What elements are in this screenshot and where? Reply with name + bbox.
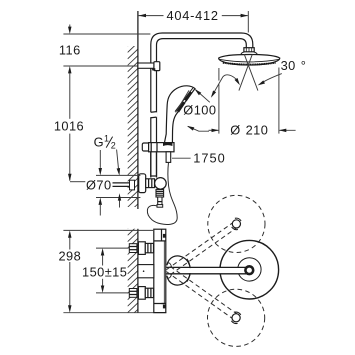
dim70 upper arrow <box>99 150 101 168</box>
union socket threads <box>129 246 137 248</box>
union socket threads <box>129 290 137 292</box>
dim150 line <box>102 255 104 266</box>
dim 116 upper arrow <box>69 25 71 28</box>
pipe into circle <box>219 267 247 273</box>
hose outlet tube <box>158 197 162 206</box>
30 deg leader right <box>261 74 282 84</box>
holder lines <box>150 143 152 152</box>
O100 lower leader <box>188 126 209 131</box>
wall hatching (upper) <box>128 36 138 226</box>
dim150 ref top <box>96 247 129 249</box>
dim 210 ext right <box>278 68 280 134</box>
dim 210 arrows <box>209 129 219 131</box>
head nozzle band <box>223 63 276 65</box>
top cap screw <box>163 234 166 238</box>
outlet pipe lines <box>166 266 247 268</box>
O100 upper leader <box>196 90 210 103</box>
head skirt <box>241 52 257 55</box>
hand shower face edge <box>175 88 193 112</box>
inner arrows <box>119 200 121 208</box>
dim150 ref bottom <box>96 292 129 294</box>
svg-text:116: 116 <box>59 42 81 57</box>
dim298 line <box>69 237 71 249</box>
wall line (upper) <box>137 11 139 209</box>
wall line (lower) <box>137 229 139 313</box>
supply stub in wall <box>130 180 135 190</box>
wall hatching (lower) <box>128 219 138 332</box>
dashed pipe upper <box>167 222 238 275</box>
nut arcs <box>231 312 240 323</box>
supply pipe lines <box>113 182 130 184</box>
knurled nut <box>156 190 164 197</box>
diverter ball <box>155 178 167 190</box>
thermostat body <box>154 229 166 312</box>
head ring nut <box>244 48 254 52</box>
wall bracket arm <box>138 63 155 68</box>
dim70 ref top <box>96 174 140 176</box>
rail break <box>150 112 157 117</box>
dashed pipe lower <box>167 267 238 320</box>
svg-text:1750: 1750 <box>193 151 225 166</box>
svg-text:404-412: 404-412 <box>166 8 218 23</box>
dim70 lower arrow <box>99 205 101 216</box>
union hex lines <box>147 243 149 252</box>
union wall socket <box>129 244 137 253</box>
dim 1016 line <box>69 73 71 119</box>
big circle core <box>245 266 253 274</box>
rotated union nut <box>232 314 240 322</box>
hand shower face slot <box>178 92 191 112</box>
dim298 ref top <box>63 229 153 231</box>
head rim top line <box>219 59 279 62</box>
head shower Ø210 side view <box>219 55 280 66</box>
rotated union nut <box>232 220 240 228</box>
outlet pipe <box>166 268 246 273</box>
tilt line right <box>244 54 258 90</box>
escutcheon <box>139 174 146 193</box>
G12 leader <box>117 150 119 170</box>
svg-text:G: G <box>94 135 104 150</box>
wall bracket clamp <box>154 62 160 71</box>
O100 face axis line <box>176 90 189 112</box>
bulb rim <box>187 259 190 282</box>
dim70 ref bottom <box>96 197 140 199</box>
union wall socket <box>129 289 137 298</box>
holder clamp <box>149 143 174 152</box>
dim 404-412 line+arrows <box>139 15 164 17</box>
1750 leader <box>172 157 191 159</box>
30 deg leader left (double arrow) <box>212 75 238 96</box>
nut arcs <box>232 218 241 229</box>
svg-text:Ø70: Ø70 <box>86 177 112 192</box>
hex nut <box>146 179 155 188</box>
ring nut knurl <box>246 48 251 52</box>
union hex lines <box>147 288 149 297</box>
svg-text:Ø210: Ø210 <box>230 123 268 138</box>
dim298 ref bottom <box>63 312 166 314</box>
dashed circle upper <box>208 195 265 252</box>
svg-text:1016: 1016 <box>54 119 84 134</box>
dim 210 ext left <box>218 68 220 81</box>
big circle outer <box>220 240 279 299</box>
svg-text:298: 298 <box>58 248 81 263</box>
dim 1016 bottom ref dash <box>70 181 85 183</box>
svg-text:1: 1 <box>104 134 109 144</box>
holder knob <box>142 143 149 151</box>
svg-text:Ø100: Ø100 <box>183 103 216 118</box>
dim 116 ref line top <box>63 33 150 35</box>
dashed circle lower <box>208 289 265 346</box>
svg-text:150±15: 150±15 <box>82 265 127 280</box>
mid block <box>138 265 154 278</box>
union hex <box>145 243 153 252</box>
bulb inner neck <box>167 263 172 278</box>
dim 116 ref line bottom <box>63 65 137 67</box>
bracket screw <box>152 68 155 70</box>
holder handle cup <box>163 143 172 146</box>
hose nut under handle <box>166 152 171 163</box>
mid dot <box>143 270 145 272</box>
union escutcheon <box>138 242 145 255</box>
hand shower handle+head <box>164 86 195 146</box>
tube flare <box>157 205 163 208</box>
rail lower segment <box>151 152 157 178</box>
union escutcheon <box>138 287 145 300</box>
tilt line left <box>239 54 252 90</box>
bottom cap screw <box>163 305 166 309</box>
knurl marks <box>156 191 163 195</box>
union trumpet bulb <box>167 256 190 285</box>
body vline <box>163 241 165 304</box>
body lines <box>154 240 166 242</box>
svg-text:2: 2 <box>111 141 116 151</box>
shower riser pipe and arm <box>151 33 253 176</box>
dim 404-412 extension line right <box>247 11 249 33</box>
big circle middle <box>238 258 261 281</box>
hand shower hose <box>147 162 177 224</box>
union hex <box>145 288 153 297</box>
svg-text:30°: 30° <box>281 58 307 73</box>
